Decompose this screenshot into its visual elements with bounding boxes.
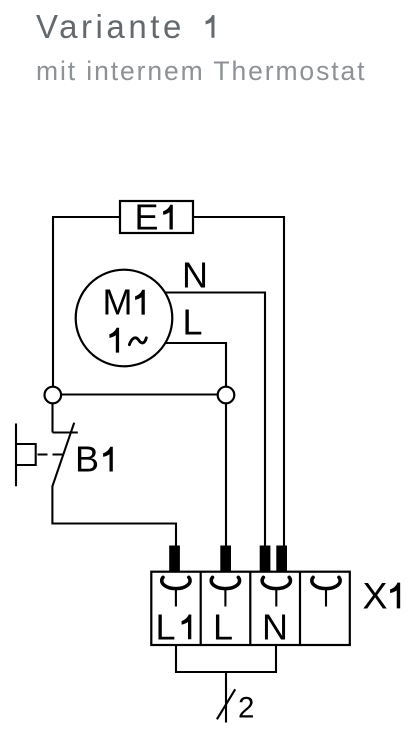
wire N from motor to terminal N pin 1	[164, 293, 265, 547]
svg-text:B: B	[75, 439, 99, 480]
plug pin N a	[260, 546, 271, 572]
actuator link dashed	[38, 453, 63, 455]
svg-text:Variante: Variante	[36, 8, 185, 45]
svg-text:N: N	[182, 254, 208, 295]
plug pin L1	[169, 546, 180, 572]
wire E1 left to junction	[53, 217, 120, 387]
svg-text:L: L	[213, 607, 233, 648]
wire L from motor to junction	[164, 343, 226, 387]
two-core slash	[217, 689, 235, 719]
svg-text:2: 2	[238, 692, 254, 725]
wire switch down to terminal L1 pin	[52, 486, 176, 546]
plug pin L	[220, 546, 231, 572]
svg-text:L: L	[156, 606, 176, 647]
terminal block X1	[151, 572, 400, 648]
svg-text:L: L	[183, 302, 203, 343]
cable bracket	[176, 645, 276, 672]
wire junction left down to switch contact	[51, 404, 53, 433]
wire junction right down to terminal L pin	[225, 404, 227, 546]
heating element E1	[120, 197, 193, 238]
terminal socket L	[211, 577, 239, 588]
terminal socket N	[262, 577, 290, 588]
junction node left	[45, 387, 62, 404]
switch blade	[52, 423, 74, 487]
thermostat actuator	[16, 424, 36, 487]
cable stem	[225, 672, 227, 723]
junction node right	[218, 387, 235, 404]
svg-text:mit internem Thermostat: mit internem Thermostat	[36, 56, 366, 86]
svg-text:X: X	[363, 574, 388, 616]
NC contact bar	[53, 431, 78, 433]
motor M1	[76, 270, 173, 367]
thermostat switch B1	[16, 423, 113, 487]
svg-text:N: N	[262, 607, 288, 648]
svg-text:E: E	[135, 197, 159, 238]
plug pin N b	[276, 546, 287, 572]
terminal socket L1	[162, 577, 190, 588]
wire bus between junctions	[61, 393, 218, 395]
wire E1 right down to terminal N pin 2	[193, 217, 284, 546]
svg-text:M: M	[103, 282, 133, 323]
terminal socket spare	[312, 577, 340, 588]
